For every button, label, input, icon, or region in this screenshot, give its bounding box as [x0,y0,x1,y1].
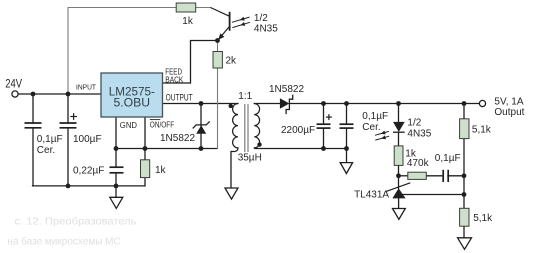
svg-text:0,22µF: 0,22µF [73,165,104,176]
svg-text:0,1µF: 0,1µF [37,134,63,145]
svg-text:24V: 24V [5,78,22,90]
svg-text:INPUT: INPUT [76,82,96,91]
svg-text:BACK: BACK [165,75,184,84]
svg-text:1:1: 1:1 [238,91,252,102]
svg-text:1N5822: 1N5822 [269,84,304,95]
svg-text:TL431A: TL431A [354,190,389,201]
svg-text:1/2: 1/2 [407,117,421,128]
svg-text:5.OBU: 5.OBU [114,95,151,109]
svg-text:Cer.: Cer. [37,145,55,156]
svg-text:4N35: 4N35 [254,24,278,35]
svg-text:1k: 1k [182,16,194,27]
svg-text:Cer.: Cer. [362,122,380,133]
svg-text:GND: GND [120,121,137,130]
svg-text:2k: 2k [226,55,238,66]
svg-text:ON/OFF: ON/OFF [150,120,174,129]
svg-text:100µF: 100µF [73,134,102,145]
svg-text:4N35: 4N35 [407,129,431,140]
svg-text:OUTPUT: OUTPUT [166,93,193,103]
svg-text:2200µF: 2200µF [281,125,315,136]
svg-text:на базе микросхемы МС: на базе микросхемы МС [7,235,120,247]
svg-text:0,1µF: 0,1µF [435,153,461,164]
svg-text:470k: 470k [407,158,430,169]
svg-text:1k: 1k [155,165,167,176]
svg-text:35µH: 35µH [238,152,262,163]
svg-text:с. 12. Преобразователь: с. 12. Преобразователь [15,216,137,228]
svg-text:1N5822: 1N5822 [160,133,195,144]
svg-text:5,1k: 5,1k [473,213,493,224]
svg-text:0,1µF: 0,1µF [362,111,388,122]
svg-text:1/2: 1/2 [254,13,268,24]
svg-text:5,1k: 5,1k [472,124,492,135]
svg-text:Output: Output [494,107,524,118]
